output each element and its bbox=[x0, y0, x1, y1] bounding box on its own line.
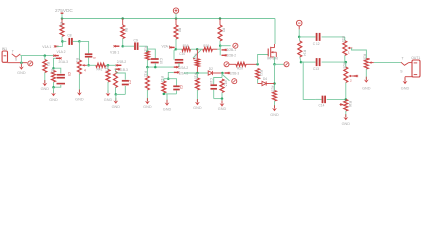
diode D2 bbox=[208, 67, 222, 75]
wire cathode bottom bbox=[54, 85, 61, 87]
potentiometer R16 bass bbox=[340, 99, 352, 111]
svg-text:R25: R25 bbox=[342, 63, 346, 69]
wire diode line bbox=[184, 72, 208, 75]
svg-text:GND: GND bbox=[17, 71, 26, 75]
diode D4 bbox=[258, 77, 275, 85]
wire to jack J3 bbox=[222, 75, 229, 81]
node C9 out bbox=[146, 50, 149, 53]
svg-text:R1: R1 bbox=[46, 62, 50, 66]
resistor R10 bbox=[194, 73, 200, 102]
potentiometer R4 volume bbox=[75, 58, 87, 74]
svg-text:2/2B-2: 2/2B-2 bbox=[227, 53, 237, 57]
resistor R18 bbox=[176, 44, 197, 51]
svg-text:2/1A-3: 2/1A-3 bbox=[59, 60, 69, 64]
wire V1A grid bbox=[20, 55, 54, 57]
supply symbol +V bbox=[173, 8, 178, 19]
ground R12 bbox=[143, 98, 152, 109]
svg-text:R19: R19 bbox=[203, 44, 209, 48]
node bass top bbox=[345, 98, 348, 101]
capacitor C14 bbox=[316, 96, 346, 108]
svg-text:V1A 2: V1A 2 bbox=[57, 50, 66, 54]
pin V2A 1 bbox=[162, 45, 175, 49]
node source bbox=[273, 63, 276, 66]
node cathode gnd V1A bbox=[52, 86, 55, 89]
wire treble bottom bbox=[344, 55, 346, 62]
pin V1B 1 bbox=[110, 45, 119, 54]
node V1B plate bbox=[121, 45, 124, 48]
svg-text:C2: C2 bbox=[179, 85, 183, 89]
svg-text:V1A 1: V1A 1 bbox=[42, 45, 51, 49]
wire to volume pot bbox=[78, 41, 80, 60]
capacitor C9 bbox=[123, 38, 148, 50]
svg-text:V1B 1: V1B 1 bbox=[110, 50, 119, 54]
resistor R8 plate bbox=[174, 19, 181, 50]
svg-text:5: 5 bbox=[92, 57, 96, 59]
capacitor C5 bbox=[57, 72, 72, 84]
label 275VDC bbox=[55, 8, 73, 19]
svg-text:GND: GND bbox=[163, 107, 172, 111]
svg-text:D2: D2 bbox=[209, 67, 213, 71]
svg-text:R11: R11 bbox=[143, 46, 147, 52]
svg-text:D4: D4 bbox=[263, 77, 267, 81]
capacitor C2 bypass bbox=[163, 79, 183, 95]
pin V1B 2 bbox=[116, 60, 127, 67]
node gate bbox=[256, 63, 259, 66]
wire treble wiper bbox=[352, 48, 370, 59]
potentiometer R21 trim bbox=[193, 49, 199, 73]
ground volume pot bbox=[75, 74, 84, 101]
wire wiper bbox=[87, 64, 96, 66]
pin V2B 3 bbox=[224, 71, 239, 75]
svg-text:2/2B-1: 2/2B-1 bbox=[227, 48, 237, 52]
svg-text:C5: C5 bbox=[67, 72, 71, 76]
svg-text:GND: GND bbox=[193, 106, 202, 110]
svg-text:IRF840: IRF840 bbox=[267, 57, 278, 61]
pin V1B 3 bbox=[115, 68, 128, 72]
node mid top bbox=[345, 61, 348, 64]
node bus junction 1 bbox=[61, 17, 64, 20]
pin V2B 1 bbox=[220, 46, 236, 53]
svg-text:R4: R4 bbox=[75, 58, 79, 62]
svg-text:GND: GND bbox=[218, 107, 227, 111]
svg-text:C8: C8 bbox=[67, 34, 71, 38]
node V2A plate bbox=[175, 48, 178, 51]
svg-text:IN1: IN1 bbox=[2, 47, 7, 51]
ground V1B cathode bbox=[112, 94, 121, 109]
jack J2 bbox=[233, 43, 238, 48]
pin V2B 2 bbox=[220, 50, 236, 58]
capacitor C8 bbox=[62, 34, 79, 45]
node V2B plate bbox=[219, 44, 222, 47]
connector OUT1 bbox=[409, 56, 421, 77]
node bus junction 3 bbox=[175, 17, 178, 20]
svg-text:R2: R2 bbox=[50, 69, 54, 73]
svg-text:GND: GND bbox=[401, 87, 410, 91]
resistor R17 bbox=[104, 65, 110, 87]
ground V2A cathode bbox=[163, 94, 172, 111]
switch contact T bbox=[12, 50, 21, 58]
node D4 tap bbox=[273, 82, 276, 85]
potentiometer R25 mid bbox=[342, 62, 358, 82]
capacitor C7 bypass bbox=[116, 73, 132, 94]
resistor R15 cathode bbox=[220, 79, 228, 99]
ground output jack bbox=[401, 78, 410, 91]
wire V1A plate bbox=[57, 41, 63, 46]
svg-text:GND: GND bbox=[75, 97, 84, 101]
resistor R5 cathode bbox=[114, 72, 118, 95]
wire plate to jack bbox=[220, 45, 230, 47]
node plate V1A bbox=[61, 40, 64, 43]
wire C9 out bbox=[146, 46, 148, 51]
wire diagonal wiper bbox=[193, 50, 201, 60]
svg-text:C14: C14 bbox=[319, 104, 325, 108]
svg-text:R23: R23 bbox=[271, 86, 275, 92]
potentiometer R26 output bbox=[362, 54, 373, 69]
svg-text:C9: C9 bbox=[134, 38, 138, 42]
svg-text:4: 4 bbox=[84, 69, 86, 73]
potentiometer R24 treble bbox=[341, 36, 353, 55]
pin V1A 2 bbox=[53, 50, 65, 57]
resistor R41 bbox=[96, 63, 106, 71]
node V2A cathode bbox=[167, 77, 170, 80]
pin V2A 2 bbox=[174, 66, 189, 70]
resistor R23 source bbox=[271, 86, 277, 108]
wire B+ bus bbox=[62, 19, 275, 45]
resistor R14 slope bbox=[298, 37, 307, 62]
svg-text:C15: C15 bbox=[209, 78, 213, 84]
wire gate bbox=[258, 55, 268, 65]
svg-text:R13: R13 bbox=[160, 76, 164, 82]
ground source resistor bbox=[270, 105, 279, 117]
node tone top bbox=[298, 36, 301, 39]
svg-text:GND: GND bbox=[342, 122, 351, 126]
svg-text:GND: GND bbox=[112, 105, 121, 109]
switch contact T out bbox=[401, 57, 409, 66]
svg-text:T: T bbox=[12, 50, 14, 54]
label S bbox=[15, 57, 18, 61]
resistor R6 plate bbox=[121, 19, 128, 47]
svg-text:S: S bbox=[400, 70, 403, 74]
wire mid to bass bbox=[345, 83, 347, 100]
connector IN1 bbox=[2, 47, 8, 62]
svg-text:C13: C13 bbox=[313, 67, 319, 71]
jack J3 bbox=[232, 79, 237, 84]
wire to V2A grid bbox=[174, 49, 176, 59]
svg-text:275VDC: 275VDC bbox=[55, 8, 73, 13]
svg-text:R20: R20 bbox=[237, 66, 243, 70]
resistor R9 plate bbox=[218, 19, 225, 46]
svg-text:GND: GND bbox=[104, 98, 113, 102]
svg-text:R8: R8 bbox=[177, 28, 181, 32]
node diode out bbox=[221, 72, 224, 75]
svg-text:R14: R14 bbox=[302, 50, 306, 56]
wire V1A cathode bbox=[54, 58, 56, 68]
resistor R13 bbox=[160, 76, 169, 94]
svg-text:T: T bbox=[402, 57, 404, 61]
svg-text:S: S bbox=[15, 57, 18, 61]
node R18 R19 bbox=[196, 48, 199, 51]
svg-text:2/1B-2: 2/1B-2 bbox=[117, 60, 127, 64]
svg-text:R16: R16 bbox=[348, 101, 352, 107]
svg-text:R12: R12 bbox=[143, 71, 147, 77]
resistor R1 bbox=[43, 56, 50, 83]
ground R1 bbox=[41, 80, 50, 91]
svg-text:R17: R17 bbox=[104, 65, 108, 71]
svg-text:C 12: C 12 bbox=[313, 42, 320, 46]
ground R10 bbox=[193, 99, 202, 110]
svg-text:GND: GND bbox=[49, 98, 58, 102]
wire to V1B grid bbox=[106, 64, 117, 66]
capacitor C10 bbox=[147, 49, 163, 67]
svg-text:C10: C10 bbox=[179, 52, 185, 56]
pin V2A 3 bbox=[174, 71, 189, 75]
ground R17 bbox=[104, 87, 113, 102]
wire V2A cathode bbox=[168, 72, 174, 78]
node pot top bbox=[78, 40, 81, 43]
resistor R11 bbox=[143, 46, 149, 67]
capacitor C12 bbox=[299, 33, 345, 46]
node V1B cathode gnd bbox=[115, 93, 126, 96]
svg-text:2: 2 bbox=[350, 79, 352, 83]
node grid junction bbox=[44, 54, 47, 57]
svg-text:R18: R18 bbox=[183, 44, 189, 48]
resistor R2 bbox=[50, 69, 55, 87]
capacitor C15 bypass bbox=[209, 78, 223, 100]
transistor Q1 IRF840 bbox=[267, 44, 278, 61]
pin V1A 3 bbox=[56, 57, 68, 64]
capacitor C11 grid bbox=[175, 52, 186, 67]
resistor R20 gate bbox=[224, 62, 258, 71]
node tone mid bbox=[300, 61, 303, 64]
jack J1 bbox=[28, 61, 33, 66]
resistor R3 bbox=[59, 19, 64, 42]
svg-text:OUT1: OUT1 bbox=[411, 56, 420, 60]
ground V1A cathode bbox=[49, 87, 58, 102]
wire source bbox=[274, 57, 276, 64]
svg-text:R26: R26 bbox=[362, 54, 366, 60]
svg-text:C10: C10 bbox=[159, 58, 163, 64]
svg-text:R10: R10 bbox=[194, 73, 198, 79]
resistor R12 bbox=[143, 67, 149, 101]
pin V1A 1 bbox=[42, 45, 58, 49]
svg-text:R24: R24 bbox=[341, 36, 345, 42]
supply symbol Z2 bbox=[296, 20, 302, 37]
svg-text:GND: GND bbox=[41, 87, 50, 91]
wire V2B cathode bbox=[221, 73, 223, 78]
svg-text:1: 1 bbox=[348, 51, 350, 55]
node bus junction 4 bbox=[219, 17, 222, 20]
ground V2B cathode bbox=[218, 99, 227, 112]
node input junction bbox=[20, 56, 23, 64]
resistor R19 bbox=[197, 44, 220, 51]
svg-text:2/2A-2: 2/2A-2 bbox=[179, 66, 189, 70]
node wiper junction bbox=[87, 64, 90, 67]
resistor R22 gate leak bbox=[256, 69, 263, 80]
node R17 tee bbox=[107, 64, 110, 67]
svg-text:GND: GND bbox=[362, 87, 371, 91]
node cathode V1A bbox=[52, 67, 55, 70]
wire source down bbox=[274, 64, 276, 90]
ground bass pot bbox=[342, 111, 351, 126]
ground input bbox=[17, 63, 26, 75]
svg-text:R15: R15 bbox=[224, 81, 228, 87]
svg-text:GND: GND bbox=[270, 113, 279, 117]
svg-text:2/2B-3: 2/2B-3 bbox=[230, 71, 240, 75]
ground output pot bbox=[362, 69, 371, 91]
wire sleeve bbox=[405, 77, 412, 81]
svg-text:R21: R21 bbox=[193, 54, 197, 60]
capacitor C13 bbox=[301, 58, 346, 71]
wire V1B cathode bbox=[114, 69, 117, 71]
wire cathode rail bbox=[146, 66, 174, 69]
wire output wiper bbox=[374, 62, 401, 64]
wire tone left leg bbox=[301, 62, 316, 99]
wire cathode cap branch bbox=[54, 68, 61, 73]
svg-text:R6: R6 bbox=[124, 28, 128, 32]
svg-text:R22: R22 bbox=[259, 70, 263, 76]
svg-text:GND: GND bbox=[143, 105, 152, 109]
jack J4 bbox=[284, 62, 289, 67]
svg-text:C7: C7 bbox=[128, 80, 132, 84]
wire jack tip bbox=[8, 62, 28, 64]
svg-text:R9: R9 bbox=[221, 28, 225, 32]
svg-text:R41: R41 bbox=[97, 67, 103, 71]
node bus junction 2 bbox=[121, 17, 124, 20]
capacitor C6 bright bbox=[79, 41, 95, 65]
label S out bbox=[400, 70, 403, 74]
svg-text:R3: R3 bbox=[59, 22, 63, 26]
wire source tap bbox=[275, 63, 284, 65]
